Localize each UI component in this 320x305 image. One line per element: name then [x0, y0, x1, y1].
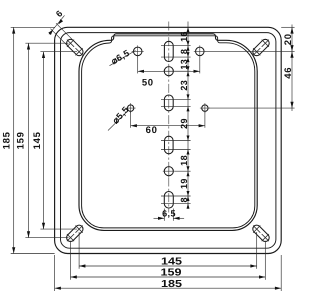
svg-text:159: 159 — [15, 131, 26, 149]
bottom ext lines — [54, 255, 56, 291]
chain ext lines — [161, 45, 191, 47]
slot S2 — [164, 95, 173, 111]
bottom arrows — [79, 264, 85, 267]
svg-text:20: 20 — [283, 33, 294, 45]
svg-text:145: 145 — [161, 257, 182, 268]
plate outer edge — [55, 27, 282, 253]
right arrows — [290, 27, 293, 33]
svg-text:16: 16 — [179, 31, 189, 42]
corner slot center crosses — [67, 40, 83, 56]
slot S4 bottom — [164, 192, 173, 209]
chain dim line — [187, 22, 189, 210]
svg-text:19: 19 — [179, 178, 189, 189]
svg-text:50: 50 — [142, 77, 154, 88]
svg-text:8: 8 — [179, 49, 189, 54]
svg-text:159: 159 — [161, 268, 182, 279]
svg-text:145: 145 — [32, 131, 43, 149]
hole d5.5 right — [202, 105, 208, 111]
svg-text:8: 8 — [179, 197, 189, 202]
svg-text:185: 185 — [161, 279, 182, 290]
hole d5.5 left — [127, 105, 133, 111]
left arrows — [12, 27, 15, 33]
corner slot bottom-left — [67, 225, 83, 241]
column centerline — [168, 22, 170, 213]
left dim lines — [13, 27, 15, 253]
svg-text:⌀6,5: ⌀6,5 — [109, 48, 131, 66]
right dim line — [291, 25, 293, 112]
hole A d6.5 — [164, 67, 173, 76]
60 dim — [130, 112, 132, 128]
bottom dim lines — [79, 265, 257, 267]
50 dim — [137, 56, 139, 73]
plate inner step edge — [61, 33, 276, 249]
body inner edge — [82, 36, 255, 228]
top-left 6 slot width dim — [49, 15, 73, 46]
svg-text:13: 13 — [179, 59, 189, 70]
svg-text:23: 23 — [179, 80, 189, 91]
corner slot top-right — [253, 39, 269, 55]
svg-text:60: 60 — [146, 125, 158, 136]
left ext lines — [11, 26, 55, 28]
svg-text:46: 46 — [283, 67, 294, 79]
hole d6.5 left — [133, 47, 142, 56]
svg-text:18: 18 — [179, 155, 189, 166]
corner slot bottom-right — [253, 225, 269, 241]
right ext lines — [281, 26, 294, 28]
slot S3 — [165, 136, 174, 154]
body outer edge — [79, 34, 257, 231]
svg-text:6,5: 6,5 — [162, 208, 176, 218]
corner slot top-left — [67, 39, 83, 55]
chain arrows — [187, 27, 190, 32]
slot S1 top — [164, 41, 173, 61]
label d5,5 — [108, 110, 129, 130]
hole d6.5 right — [196, 47, 205, 56]
svg-text:185: 185 — [2, 131, 13, 149]
bottom 6,5 slot width dim — [163, 209, 165, 221]
hole cross ticks — [132, 45, 144, 57]
svg-text:29: 29 — [179, 118, 189, 129]
hole B d6.5 — [164, 167, 173, 176]
label d6,5 — [110, 51, 136, 66]
